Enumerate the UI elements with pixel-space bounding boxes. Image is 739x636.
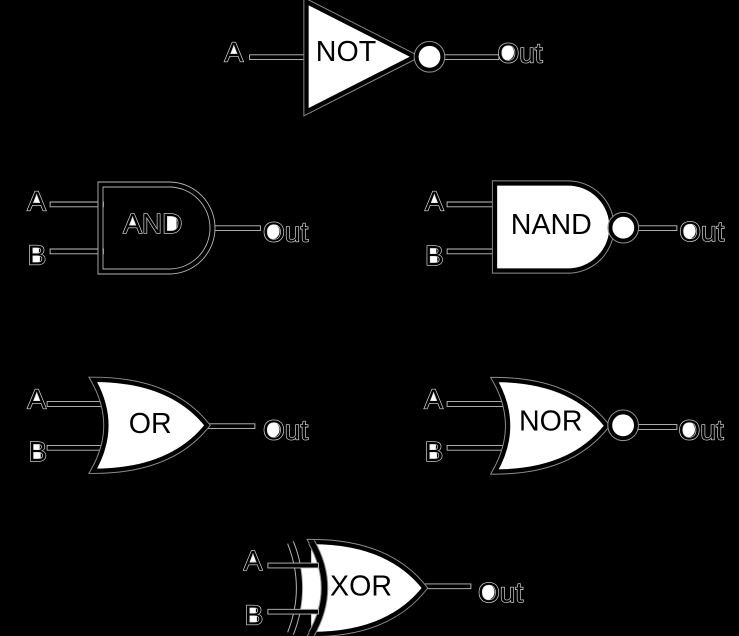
svg-text:B: B xyxy=(28,240,47,271)
svg-text:Out: Out xyxy=(478,577,523,608)
svg-text:Out: Out xyxy=(679,415,724,446)
svg-text:Out: Out xyxy=(263,216,308,247)
svg-text:NOR: NOR xyxy=(519,405,583,437)
svg-text:B: B xyxy=(425,436,444,467)
svg-text:B: B xyxy=(28,436,47,467)
svg-text:A: A xyxy=(27,384,46,415)
svg-text:AND: AND xyxy=(123,208,182,239)
svg-text:A: A xyxy=(225,37,244,68)
svg-text:NOT: NOT xyxy=(316,36,376,68)
svg-text:NAND: NAND xyxy=(511,209,592,241)
svg-text:B: B xyxy=(245,599,264,630)
svg-text:Out: Out xyxy=(498,37,543,68)
svg-text:A: A xyxy=(244,545,263,576)
svg-text:A: A xyxy=(425,186,444,217)
svg-text:OR: OR xyxy=(129,408,172,440)
svg-text:A: A xyxy=(27,186,46,217)
svg-text:Out: Out xyxy=(679,216,724,247)
svg-text:B: B xyxy=(425,240,444,271)
svg-text:Out: Out xyxy=(263,414,308,445)
svg-text:XOR: XOR xyxy=(330,571,392,603)
svg-text:A: A xyxy=(424,384,443,415)
